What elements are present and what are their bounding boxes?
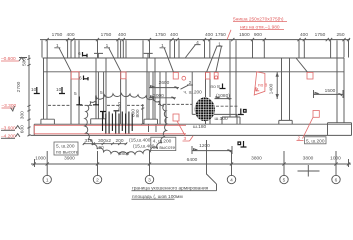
svg-text:600: 600: [131, 109, 137, 117]
rebar bars group: [103, 112, 133, 134]
axis3 pier: [147, 58, 155, 119]
svg-text:по высоте: по высоте: [153, 146, 176, 151]
svg-text:(15,ш.400: (15,ш.400: [129, 138, 151, 144]
svg-text:6: 6: [79, 76, 82, 82]
axis bubble 3: [145, 175, 153, 183]
axis4 pier: [230, 58, 236, 117]
svg-text:1750: 1750: [52, 32, 63, 38]
bay1 mid pier: [71, 72, 79, 124]
axis bubble 1: [43, 175, 51, 183]
axis5 pier: [282, 58, 290, 120]
svg-text:500: 500: [117, 102, 123, 110]
bottom dimension line: [31, 163, 351, 165]
bay3 mullion pier: [206, 72, 211, 124]
svg-text:400: 400: [118, 32, 126, 38]
svg-text:5: 5: [74, 91, 77, 97]
svg-text:1750: 1750: [101, 32, 112, 38]
axis2 footing block: [91, 119, 106, 124]
section flag 7 lower: [238, 141, 247, 147]
svg-text:ш.180: ш.180: [193, 124, 207, 130]
left vertical dim line: [27, 55, 30, 136]
top dimension extension lines: [42, 40, 349, 57]
svg-text:1500: 1500: [239, 32, 250, 38]
svg-text:10: 10: [56, 87, 62, 93]
svg-text:5: 5: [283, 178, 286, 184]
boxed label 5 sh.200 right: [305, 137, 327, 144]
cross marker between axis5 and 6: [298, 165, 320, 177]
wall top line: [43, 57, 345, 59]
dashed line at niche: [216, 105, 239, 107]
svg-text:1200: 1200: [199, 143, 210, 149]
red square 3: [173, 72, 178, 79]
svg-text:3800: 3800: [251, 155, 262, 161]
svg-text:3800: 3800: [303, 155, 314, 161]
top dimension line: [40, 39, 350, 41]
svg-text:2: 2: [96, 178, 99, 184]
revision cloud: [85, 94, 167, 155]
red square 6 (bay5): [307, 72, 313, 79]
red circle 3b: [182, 76, 186, 80]
svg-text:400: 400: [205, 32, 213, 38]
rebar top ticks: [100, 110, 120, 113]
bay2 mid pier: [121, 72, 126, 124]
axis2 pier: [96, 58, 106, 119]
red square 4: [206, 72, 211, 79]
svg-text:1750: 1750: [155, 32, 166, 38]
svg-text:1400: 1400: [269, 83, 275, 94]
svg-text:(15,ш.400: (15,ш.400: [133, 144, 155, 150]
svg-text:400: 400: [170, 32, 178, 38]
bay3 jamb pier: [160, 72, 166, 124]
foundation step top line: [192, 114, 237, 124]
svg-text:10: 10: [31, 87, 37, 93]
axis bubble 6: [332, 175, 340, 183]
svg-text:900: 900: [254, 32, 262, 38]
left footing block: [34, 119, 54, 135]
wall top cap over axis2 pier: [94, 53, 103, 58]
svg-text:6: 6: [78, 51, 81, 57]
axis5 footing block: [279, 120, 292, 124]
svg-text:2700: 2700: [16, 81, 22, 92]
red square A center: [173, 114, 179, 121]
top dimension tick marks: [46, 38, 351, 41]
axis3 pedestal below: [149, 124, 157, 132]
red square B right: [313, 111, 319, 118]
boxed label 4 sh.200 po vysote: [151, 137, 176, 150]
svg-text:5: 5: [100, 90, 103, 96]
small dim line with ticks: [83, 142, 128, 145]
crosshatched pile cap blob: [193, 96, 216, 123]
dim arrows 1080: [215, 97, 232, 100]
svg-text:5, ш.200: 5, ш.200: [56, 143, 75, 149]
svg-text:300: 300: [19, 111, 25, 119]
axis4 footing block: [222, 117, 240, 124]
svg-text:1500: 1500: [325, 88, 336, 94]
red square 1: [71, 72, 79, 79]
leader to red square bay5: [296, 58, 308, 72]
svg-text:ч. ш.200: ч. ш.200: [184, 90, 203, 96]
axis3 footing block: [144, 119, 158, 124]
svg-text:по 8: по 8: [258, 83, 268, 89]
left wall edge pier: [44, 58, 48, 119]
axis bubble 5: [280, 175, 288, 183]
svg-text:600: 600: [19, 125, 25, 133]
red square 2: [121, 72, 126, 79]
red niche outline with label po 8: [254, 72, 265, 95]
wall top cap over axis3 pier: [144, 53, 153, 58]
svg-text:400: 400: [300, 32, 308, 38]
svg-text:1: 1: [46, 178, 49, 184]
opening top line: [44, 71, 345, 73]
bottom dim extension lines: [35, 151, 349, 176]
bottom dim ticks: [33, 162, 351, 165]
axis bubble 2: [93, 175, 101, 183]
svg-text:4, ш.200: 4, ш.200: [153, 139, 172, 145]
svg-text:400: 400: [66, 32, 74, 38]
svg-text:1000: 1000: [35, 155, 46, 161]
boxed label 5 sh.200 po vysote: [54, 142, 78, 155]
svg-text:по 8: по 8: [211, 84, 221, 90]
svg-text:3900: 3900: [64, 155, 75, 161]
right footing block: [328, 123, 352, 136]
svg-text:2600: 2600: [159, 80, 170, 86]
svg-text:6400: 6400: [187, 157, 198, 163]
foundation bottom line: [31, 134, 352, 136]
svg-text:3: 3: [148, 178, 151, 184]
svg-text:500: 500: [22, 58, 28, 66]
note box leader: [207, 140, 217, 184]
svg-text:4: 4: [230, 178, 233, 184]
svg-text:1750: 1750: [215, 32, 226, 38]
section flag 7 upper: [238, 109, 246, 115]
right edge pier: [337, 58, 344, 123]
dashed sill lines: [48, 104, 199, 105]
svg-text:250: 250: [336, 32, 344, 38]
svg-text:90: 90: [99, 145, 105, 151]
svg-text:5, ш.200: 5, ш.200: [306, 138, 325, 144]
red strengthened foundation boundary: [34, 125, 186, 134]
svg-text:6: 6: [335, 178, 338, 184]
axis bubble 4: [227, 175, 235, 183]
red square 5: [214, 72, 218, 79]
foundation mid line: [34, 123, 351, 125]
svg-text:1750: 1750: [315, 32, 326, 38]
svg-text:по высоте: по высоте: [56, 151, 79, 156]
bay3 jamb line: [191, 72, 193, 115]
svg-text:3800: 3800: [119, 151, 130, 157]
